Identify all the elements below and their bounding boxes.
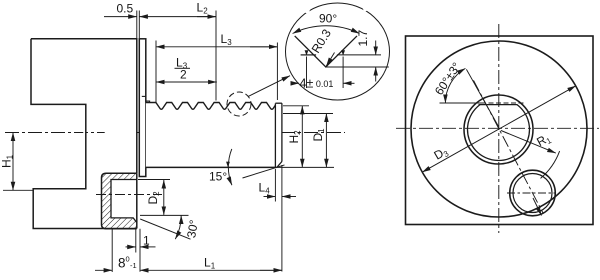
extension line flange left face [138,11,140,39]
svg-text:0.5: 0.5 [117,2,134,16]
flat chord line [479,104,518,106]
shank end face line inner [274,103,276,167]
shank end top stub [275,102,282,104]
15 deg dimension arc [228,149,232,185]
vertical centerline (end view) [498,24,500,233]
crest line left (detail) [301,54,317,56]
side hole inner circle [513,174,552,213]
dimension L2 left arrow [139,16,175,18]
svg-text:1: 1 [143,234,150,248]
tick arrow left crest [305,50,309,55]
dimension D2 lower arrow [163,197,165,215]
dimension L3 line [176,46,277,48]
dimension L1 line [160,269,282,271]
boss outer outline [102,173,137,228]
dimension 1 right arrow [140,246,156,248]
label 1.7 [356,29,370,46]
dimension D3 line with upper-right arrow [440,86,576,162]
diagonal centerline through side hole [474,80,544,213]
extension line L4 right / L1 right [281,165,283,272]
extension line L4 left [274,169,276,202]
extension line thread end [276,43,278,101]
extension line head bottom for H1 [3,189,33,191]
label D2 [146,191,161,205]
label H1 [0,154,15,168]
boss bore outline with 30 deg mouth chamfer [111,180,137,223]
label H2 [287,130,302,144]
extension line left for 4+-0.01 [306,57,308,89]
label 30 deg [184,219,201,240]
detail leader line [249,76,291,97]
dimension H1 upper arrow [12,133,14,161]
30 deg chamfer reference line [140,219,190,239]
shank end face line outer [281,103,283,161]
dimension L3 right arrow [250,46,277,48]
label D1 [311,128,326,142]
30 deg dimension arc [175,215,181,239]
extension line shank bottom [276,166,334,168]
dimension R1 radial leader [501,131,556,154]
flat extension line for 60 deg [440,102,482,104]
dimension 1 left arrow [126,246,136,248]
head block outline (side view) [31,39,137,229]
dimension H2 upper arrow [301,106,303,135]
extension line root level for D1 [283,113,333,115]
label D3 [432,144,451,164]
detail view balloon circle [286,3,390,100]
centerline main axis of shank (side view) [5,132,345,134]
boss section hatching [102,173,137,228]
dimension L3/2 right arrow [200,81,217,83]
dimension D2 upper arrow [163,180,165,197]
dimension 1.7 lower arrow [375,67,377,82]
arrowhead on diagonal centerline [533,198,542,216]
flange step tick [142,95,146,97]
dimension L4 left arrow [264,196,276,198]
15 deg chamfer reference line [243,165,285,178]
dimension 8 arrow line [95,269,112,271]
shank top relief step near flange [146,101,150,103]
svg-text:90°: 90° [319,12,337,26]
detail reference dashed circle on serration [227,92,251,116]
dimension 0.5 left arrow line [104,16,137,18]
extension line bore top for D2 [138,179,170,181]
head right edge lower part [136,173,138,228]
dimension D1 upper arrow [325,114,327,136]
dimension D3 lower-left arrow [422,162,440,172]
center bore inner circle clipped by flat [467,105,529,161]
15 deg arc mid arrowhead [226,162,230,168]
svg-text:15°: 15° [209,170,227,184]
dimension L3 left arrow [156,46,176,48]
extension line crest level for H2 [283,105,309,107]
crest line right (detail) [337,54,381,56]
extension line right for 4+-0.01 [342,57,344,89]
dimension L1 right arrow [260,269,282,271]
balloon circle gap upper-left [301,4,311,14]
fraction bar of L3/2 [175,67,191,69]
R1 position arc [541,151,560,178]
svg-text:2: 2 [180,68,187,82]
dimension L2 line [175,16,216,18]
shank body fill [146,103,282,168]
label R0.3 [309,26,334,55]
svg-text:1.7: 1.7 [356,29,370,46]
dimension L3/2 left arrow [156,81,176,83]
balloon circle gap upper-right [361,2,371,12]
label 60 deg +/- 3 deg [432,60,464,98]
60 deg dimension arc [445,68,465,103]
dimension L4 right arrow [282,196,296,198]
dimension L1 left arrow [140,269,160,271]
dimension D1 lower arrow [325,135,327,167]
extension line boss right face [135,229,137,253]
extension line head right face [136,11,138,39]
shank bottom edge [146,166,276,168]
dimension 4+-0.01 right arrow [343,82,354,84]
side hole outer circle [510,170,556,216]
label R1 [534,130,553,150]
boss bore centerline [96,194,162,196]
extension line bore wall for 8 [111,229,113,272]
dimension H1 lower arrow [12,160,14,190]
root line (detail) [326,66,389,68]
flat extension dashed continuation [481,102,524,104]
thread profile flanks (detail) [295,36,357,67]
extension line bore bottom for D2 and 30 deg [140,214,189,216]
side hole horizontal centerline [507,192,556,194]
shank serrated top edge [146,103,276,110]
R0.3 leader [326,53,334,67]
dimension 1.7 upper arrow [375,41,377,55]
end view flange circle [411,41,587,217]
tick arrow right crest [341,50,345,55]
extension line thread start [155,41,157,104]
shank end chamfer edge [277,162,282,168]
90 deg dimension arc [293,26,360,34]
extension line mid-thread [215,11,217,101]
extension line flange left face lower [139,229,141,272]
dimension H2 lower arrow [301,135,303,167]
svg-text:4± 0.01: 4± 0.01 [300,77,334,91]
60 deg reference line [466,69,498,126]
horizontal centerline (end view) [396,127,599,129]
dimension L3/2 line [176,81,217,83]
end view square body [406,36,594,225]
dimension 4+-0.01 left arrow [292,82,299,84]
flange plate [139,39,146,177]
dimension L2 right arrow [197,16,216,18]
center bore outer circle [464,95,533,164]
